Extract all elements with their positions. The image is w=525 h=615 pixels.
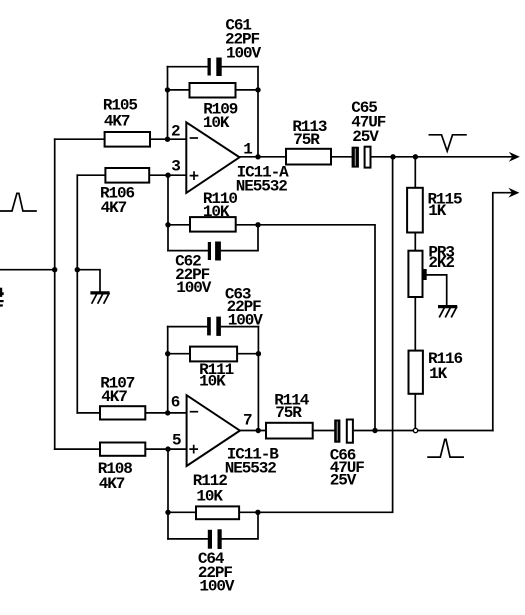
resistor R116 <box>414 297 416 351</box>
resistor R109 <box>190 83 236 98</box>
svg-text:4K7: 4K7 <box>101 388 127 406</box>
ground <box>90 291 109 303</box>
svg-text:100V: 100V <box>226 45 262 63</box>
node out2 junction b ring <box>413 428 417 432</box>
capacitor C62 <box>208 242 221 261</box>
svg-text:1K: 1K <box>429 365 448 383</box>
svg-text:7: 7 <box>243 411 252 429</box>
wire cross couple A to B-output <box>258 225 375 431</box>
node pin3 junction <box>165 173 170 178</box>
resistor R107 <box>100 406 145 419</box>
arrow output 2 <box>508 188 519 198</box>
svg-text:NE5532: NE5532 <box>225 459 277 477</box>
wire R108 row <box>55 448 187 450</box>
op-amp U IC11-B <box>187 395 240 466</box>
svg-text:5: 5 <box>172 432 181 450</box>
capacitor C64 <box>208 529 222 549</box>
svg-text:75R: 75R <box>293 131 320 149</box>
svg-text:100V: 100V <box>176 279 212 297</box>
node pin6 junction <box>165 410 170 415</box>
svg-text:25V: 25V <box>330 472 357 490</box>
node pin5 junction <box>165 446 170 451</box>
capacitor C66 <box>334 420 353 443</box>
input pulse symbol <box>0 193 36 211</box>
wire R111 row <box>168 353 259 355</box>
wire R109 row <box>168 89 259 91</box>
wire R107 row <box>77 412 186 414</box>
negative pulse symbol <box>429 135 466 151</box>
wire output B <box>240 430 266 432</box>
svg-text:2K2: 2K2 <box>428 254 454 272</box>
node pin2 junction <box>165 137 170 142</box>
capacitor C61 <box>208 58 222 77</box>
wire input vertical bus V1 <box>54 139 56 449</box>
node input junction <box>52 267 57 272</box>
node R109 left junction <box>165 87 170 92</box>
node ground tap junction <box>75 267 80 272</box>
wire R105 row <box>55 138 187 140</box>
node R111 left junction <box>165 351 170 356</box>
node out2 junction a <box>372 428 377 433</box>
wire input horizontal <box>0 269 55 271</box>
op-amp U IC11-A <box>186 122 239 193</box>
wire ground bus V2 <box>76 175 78 413</box>
svg-text:2: 2 <box>171 122 180 140</box>
node pin7 junction <box>256 428 261 433</box>
wire R113 to C65 <box>331 156 352 158</box>
wire feedback B right vertical <box>257 327 259 431</box>
resistor R114 <box>266 423 313 439</box>
wire C62 row <box>168 225 258 251</box>
resistor R106 <box>105 168 149 183</box>
wire output 2 row <box>353 430 493 432</box>
wire C61 row <box>168 66 259 68</box>
node R109 right junction <box>255 87 260 92</box>
wire feedback A right vertical <box>257 67 259 157</box>
resistor R105 <box>105 132 150 147</box>
resistor R111 <box>190 347 237 362</box>
svg-text:6: 6 <box>171 394 180 412</box>
node R111 right junction <box>256 351 261 356</box>
wire C64 row <box>168 512 258 539</box>
capacitor C63 <box>207 317 221 336</box>
wire out2 riser and arrow row <box>493 193 513 431</box>
svg-text:4K7: 4K7 <box>99 475 125 493</box>
wire C63 row <box>168 326 259 328</box>
svg-text:10K: 10K <box>199 373 226 391</box>
node R110 right junction <box>255 222 260 227</box>
svg-text:100V: 100V <box>199 578 235 596</box>
svg-text:1: 1 <box>243 141 252 159</box>
node pin1 junction <box>255 154 260 159</box>
svg-text:4K7: 4K7 <box>104 113 130 131</box>
positive pulse symbol bottom <box>428 439 463 457</box>
wire R106 row <box>77 174 186 176</box>
partial text left edge <box>0 288 2 297</box>
potentiometer PR3 <box>414 233 416 251</box>
wire R114 to C66 <box>313 430 335 432</box>
wire feedback A left vertical <box>167 67 169 140</box>
capacitor C65 <box>352 147 371 168</box>
wire output A <box>240 156 287 158</box>
wire R110 row <box>168 224 258 226</box>
wire R112 row <box>168 511 258 513</box>
svg-text:25V: 25V <box>352 128 379 146</box>
svg-text:3: 3 <box>171 157 180 175</box>
wire cross couple B to A-output <box>258 157 393 513</box>
svg-text:NE5532: NE5532 <box>236 178 288 196</box>
node out1 junction b <box>413 154 418 159</box>
svg-text:10K: 10K <box>196 488 223 506</box>
resistor R112 <box>196 506 239 519</box>
svg-text:1K: 1K <box>428 202 447 220</box>
ground PR3 <box>438 305 457 317</box>
wire feedback B left vertical <box>167 327 169 413</box>
svg-text:10K: 10K <box>203 203 230 221</box>
resistor R110 <box>190 217 236 232</box>
arrow output 1 <box>509 152 520 162</box>
node out1 junction a <box>390 154 395 159</box>
wire output 1 row with arrow <box>371 156 514 158</box>
node R112 left junction <box>165 510 170 515</box>
wire ground tap <box>77 270 100 292</box>
wire pin5 down vertical <box>167 449 169 539</box>
resistor R113 <box>286 149 331 165</box>
svg-text:10K: 10K <box>203 114 230 132</box>
resistor R115 <box>414 157 416 188</box>
node R112 right junction <box>255 510 260 515</box>
node R110 left junction <box>165 222 170 227</box>
resistor R108 <box>100 443 145 456</box>
svg-text:75R: 75R <box>275 404 302 422</box>
svg-text:4K7: 4K7 <box>101 199 127 217</box>
wire pin3 down vertical <box>167 175 169 250</box>
